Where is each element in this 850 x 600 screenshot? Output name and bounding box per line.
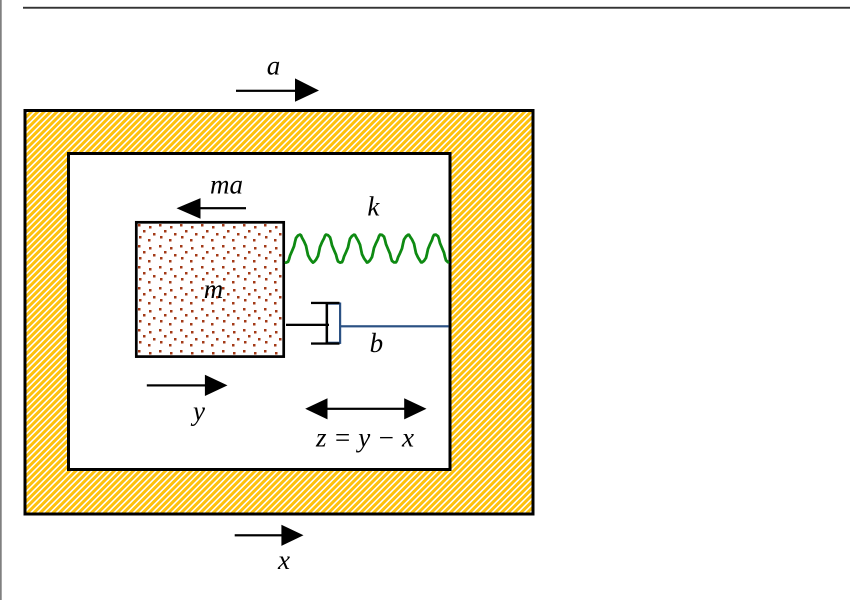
spring k [286, 235, 448, 263]
svg-text:x: x [277, 545, 290, 575]
svg-text:ma: ma [210, 169, 243, 199]
arrow x [235, 525, 304, 546]
damper piston plate [326, 303, 329, 344]
damper bottom bar [311, 342, 340, 344]
svg-text:y: y [190, 396, 205, 426]
svg-text:k: k [367, 192, 380, 222]
damper cylinder (blue) [327, 304, 340, 343]
svg-text:b: b [370, 328, 384, 358]
arrow y [147, 375, 228, 396]
damper piston rod (black) [286, 324, 329, 326]
page top rule [23, 7, 850, 9]
arrow ma [177, 198, 247, 219]
mass m block [136, 222, 283, 356]
double arrow z [305, 398, 426, 419]
arrow a [236, 78, 319, 101]
page left rule [0, 0, 1, 600]
svg-text:m: m [204, 274, 224, 304]
damper blue rod [340, 325, 449, 327]
svg-text:z = y − x: z = y − x [315, 423, 414, 453]
damper top bar [311, 302, 340, 304]
svg-text:a: a [267, 51, 281, 81]
outer frame (hatched) [25, 111, 533, 515]
inner cavity [69, 154, 451, 470]
